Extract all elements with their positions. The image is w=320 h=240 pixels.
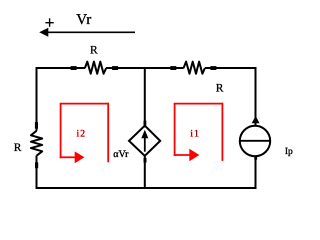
svg-text:i1: i1 bbox=[190, 129, 200, 140]
value label Ip bbox=[285, 147, 293, 157]
svg-text:R: R bbox=[216, 83, 224, 95]
value label R of R2 bbox=[216, 83, 224, 95]
label Vr bbox=[76, 12, 91, 28]
wire right lower segment bbox=[255, 156, 257, 189]
svg-text:i2: i2 bbox=[77, 129, 87, 140]
wire top-middle segment bbox=[106, 67, 184, 69]
resistor R2 (top right) bbox=[170, 62, 216, 74]
svg-text:Vr: Vr bbox=[76, 12, 91, 28]
svg-text:R: R bbox=[90, 45, 98, 57]
wire middle upper segment bbox=[144, 67, 146, 126]
label i2 (red) bbox=[77, 129, 87, 140]
value label alpha-Vr of U1 bbox=[113, 149, 129, 160]
wire top-left segment bbox=[36, 67, 86, 69]
svg-text:Ip: Ip bbox=[285, 147, 293, 157]
resistor R3 (left side) bbox=[31, 122, 42, 168]
Vr reference arrow (pointing left) bbox=[39, 28, 135, 37]
wire bottom segment bbox=[36, 187, 257, 189]
svg-text:αVr: αVr bbox=[113, 149, 129, 160]
wire middle lower segment bbox=[144, 156, 146, 189]
wire top-right segment bbox=[205, 67, 257, 69]
wire right upper segment bbox=[255, 67, 257, 127]
mesh current loop i2 (red) bbox=[60, 103, 108, 164]
plus sign (Vr polarity +) bbox=[45, 18, 53, 27]
wire left upper segment bbox=[36, 67, 38, 131]
dependent current source U1 (diamond, alpha*Vr) bbox=[129, 121, 160, 163]
value label R of R3 bbox=[14, 142, 22, 154]
mesh current loop i1 (red) bbox=[174, 103, 223, 162]
value label R of R1 bbox=[90, 45, 98, 57]
current source Ip (circle with bar, arrow up) bbox=[240, 116, 270, 160]
resistor R1 (top left) bbox=[71, 62, 119, 74]
svg-text:R: R bbox=[14, 142, 22, 154]
label i1 (red) bbox=[190, 129, 200, 140]
wire left lower segment bbox=[36, 156, 38, 190]
